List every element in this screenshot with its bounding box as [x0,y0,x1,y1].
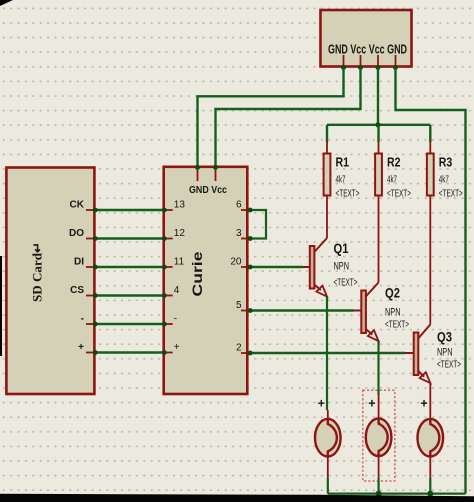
svg-text:GND Vcc Vcc GND: GND Vcc Vcc GND [328,43,407,57]
wire resistor supply rail [327,124,430,126]
svg-text:Q2: Q2 [385,285,400,301]
wire GND4 right and down to ground rail [396,68,466,494]
svg-text:Q1: Q1 [334,240,349,256]
Q1 base lead [303,266,309,268]
pin GND 4 of power header [395,55,397,67]
svg-text:+: + [420,397,427,411]
selection box around buzzer2 [363,390,395,481]
junction pin 6 [248,208,253,213]
junction Curie Vcc pin [213,165,218,170]
junction at power pin 3 [376,65,381,70]
wire loop pin6 to pin3 [250,210,266,239]
junction Curie GND pin [195,165,200,170]
wire Q2 emitter to buzzer2 [377,341,379,395]
SD to Curie wire row + [86,350,173,355]
resistor R3 [427,141,434,325]
wire pin5 to Q2 base [241,308,354,313]
SD to Curie wire row DO [86,236,173,241]
transistor Q2 [361,283,378,342]
Curie top pin GND stub [197,167,199,181]
svg-text:NPN: NPN [385,307,401,319]
buzzer3 top lead from Q3 emitter [429,383,431,420]
wire BZ2 to ground rail [378,478,380,494]
Q3 base lead [405,352,413,354]
svg-text:<TEXT>: <TEXT> [437,360,461,371]
buzzer BZ1 [315,419,341,457]
Curie pin 6 stub [241,209,249,211]
SD to Curie wire row - [86,322,173,327]
Curie pin 3 stub [241,238,249,240]
svg-text:<TEXT>: <TEXT> [385,320,409,331]
svg-text:-: - [81,314,84,325]
SD Card module [6,168,94,395]
junction at power pin 1 [341,65,346,70]
BZ1 bottom lead [327,456,329,478]
wire rail to R1 [326,125,328,142]
svg-text:11: 11 [174,257,185,268]
junction at power pin 4 [393,65,398,70]
svg-text:DO: DO [69,228,84,239]
wire rail to R3 [429,125,431,142]
svg-text:-: - [174,314,177,325]
SD to Curie wire row DI [86,265,173,270]
svg-text:20: 20 [230,257,242,268]
svg-text:6: 6 [236,200,242,211]
svg-text:GND Vcc: GND Vcc [189,185,227,196]
pin GND 1 of power header [343,55,345,67]
wire Vcc2 to Curie Vcc [216,68,361,167]
video artifact top-left corner [0,0,13,6]
svg-text:NPN: NPN [334,261,350,273]
wire Q1 emitter to buzzer1 [326,296,328,410]
buzzer BZ3 [418,419,444,457]
svg-text:<TEXT>: <TEXT> [387,189,411,200]
transistor Q3 [414,325,431,384]
Curie IC U1 [164,167,248,394]
junction rail buzzer2 [376,491,382,497]
svg-text:Curie: Curie [190,251,205,297]
wire Vcc3 down to resistor rail [377,68,379,125]
pin Vcc 2 of power header [360,55,362,67]
video artifact bottom black bar [0,494,474,502]
svg-text:4k7: 4k7 [336,175,346,186]
wire rail to R2 [377,125,379,142]
svg-text:DI: DI [74,257,84,268]
SD to Curie wire row CK [86,208,173,213]
BZ3 bottom lead [429,456,431,478]
buzzer2 top lead [378,394,380,420]
buzzer1 top lead [327,410,329,420]
Q2 base lead [354,310,361,312]
wire BZ3 to ground rail [429,478,431,494]
svg-text:13: 13 [174,200,186,211]
svg-text:+: + [78,342,84,353]
svg-text:SD Card↵: SD Card↵ [31,242,45,302]
svg-text:+: + [318,397,325,411]
svg-text:12: 12 [174,228,186,239]
junction rail/Vcc3 [375,122,380,127]
wire BZ1 to ground rail [327,478,329,494]
svg-text:+: + [174,342,180,353]
svg-text:+: + [368,397,375,411]
wire GND1 to Curie GND [198,68,344,167]
svg-text:4: 4 [174,285,180,296]
transistor Q1 [310,238,327,297]
video artifact left edge sliver [0,256,2,356]
resistor R2 [375,141,382,283]
BZ2 bottom lead [378,456,380,478]
svg-text:CK: CK [70,200,85,211]
svg-text:NPN: NPN [437,347,453,359]
wire pin2 to Q3 base [241,351,405,356]
svg-text:<TEXT>: <TEXT> [334,278,358,289]
power header J1 [321,10,412,67]
svg-text:<TEXT>: <TEXT> [439,189,463,200]
svg-text:2: 2 [236,343,242,354]
SD to Curie wire row CS [86,293,173,298]
junction rail buzzer3 [427,491,433,497]
pin Vcc 3 of power header [377,55,379,67]
svg-text:4k7: 4k7 [387,175,397,186]
junction pin 3 [248,236,253,241]
svg-text:CS: CS [70,285,84,296]
svg-text:R3: R3 [439,156,453,170]
junction at power pin 2 [358,65,363,70]
buzzer BZ2 [366,419,392,457]
wire pin20 to Q1 base [241,265,303,270]
Curie top pin Vcc stub [215,167,217,181]
svg-text:<TEXT>: <TEXT> [336,189,360,200]
svg-text:4k7: 4k7 [439,175,449,186]
wire ground rail bottom [328,493,466,495]
svg-text:R1: R1 [336,156,350,170]
resistor R1 [324,141,331,238]
svg-text:R2: R2 [387,156,401,170]
svg-text:5: 5 [236,300,242,311]
svg-text:3: 3 [236,228,242,239]
svg-text:Q3: Q3 [437,329,452,345]
